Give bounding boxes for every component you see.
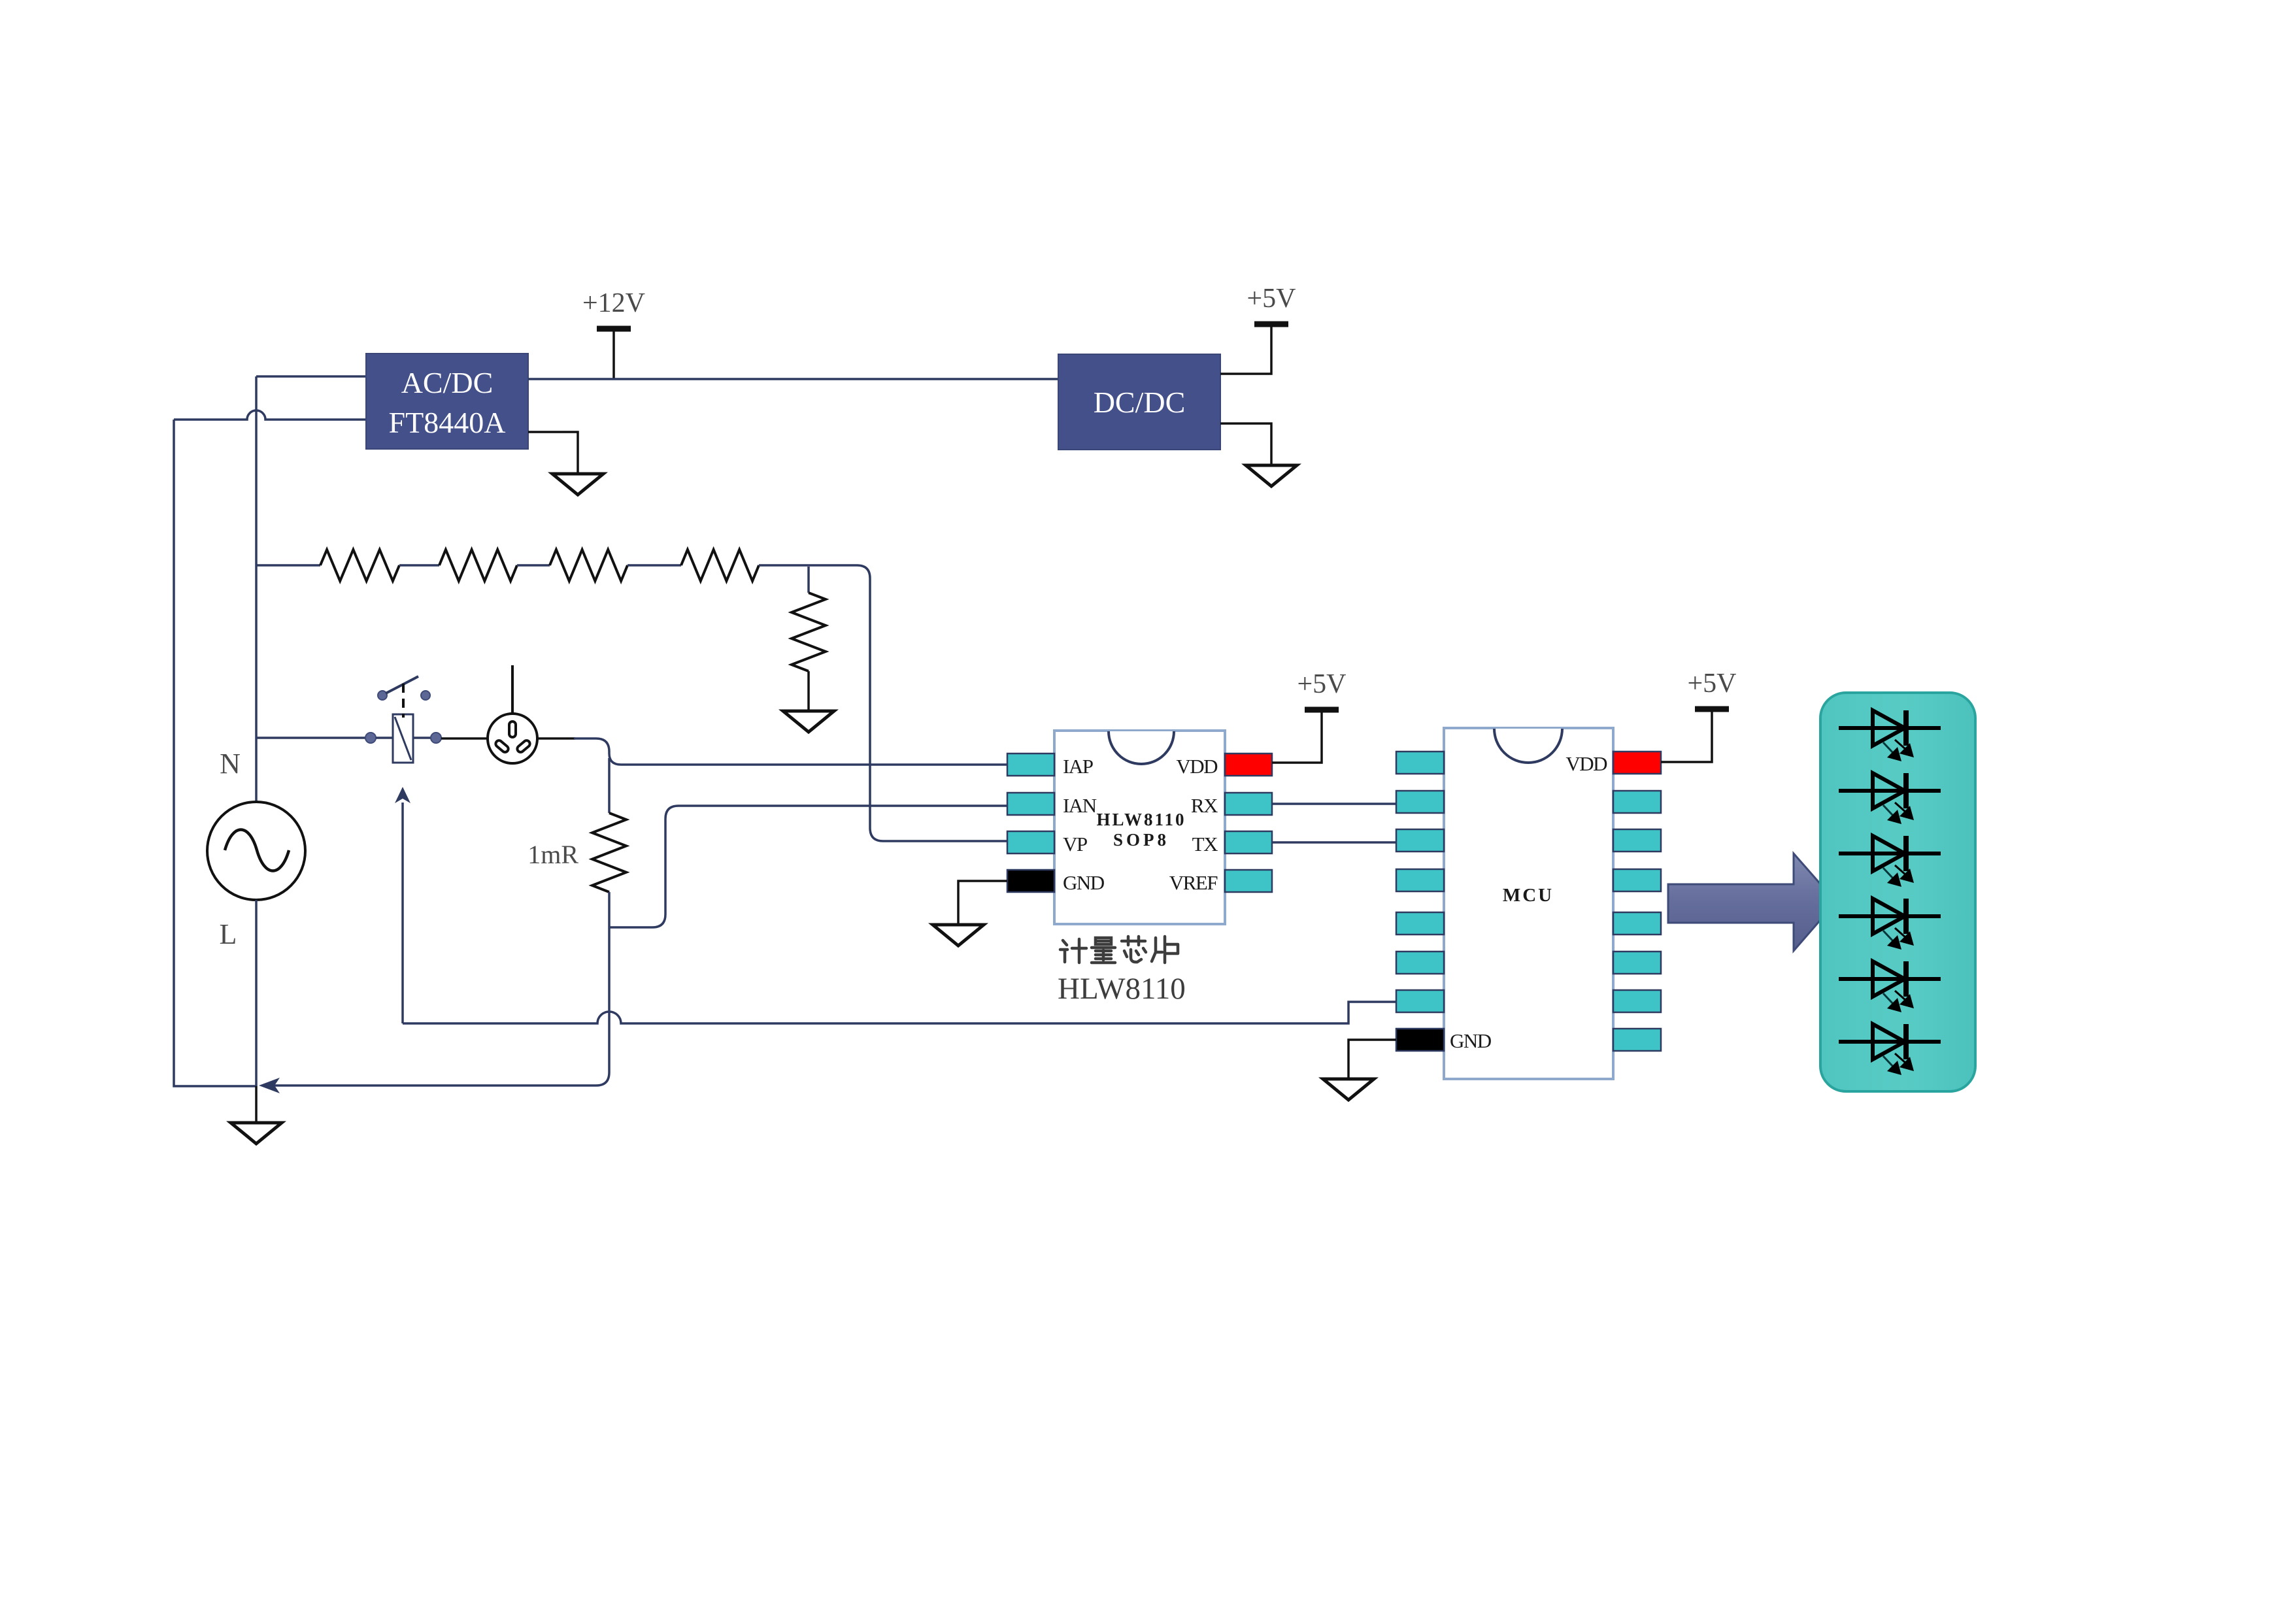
pin MCU left 6 [1396,952,1444,974]
wire TX to MCU [1272,841,1396,844]
svg-text:N: N [220,748,241,780]
wire below shunt to bottom return [275,892,609,1085]
arrowhead pointing at relay coil [395,787,410,803]
pin MCU right 3 [1613,829,1661,852]
wire MCU VDD to +5V [1661,712,1712,762]
wire 12V rail AC/DC output to DC/DC input [528,378,1058,380]
pin MCU right 1 [1613,752,1661,774]
wire divider tap down to shunt resistor [807,567,810,593]
LED D4 [1839,899,1941,950]
LED D5 [1839,961,1941,1012]
ground symbol at DC/DC [1246,465,1297,486]
svg-text:DC/DC: DC/DC [1094,386,1186,419]
arrowhead into source bottom node [259,1078,280,1093]
wire RX to MCU [1272,803,1396,805]
pin MCU left 4 [1396,869,1444,891]
pin IAP [1007,754,1054,776]
pin GND (HLW8110) [1007,870,1054,892]
pin MCU right 5 [1613,912,1661,935]
pin MCU right 4 [1613,869,1661,891]
svg-text:IAP: IAP [1063,755,1093,778]
MCU chip U2 [1444,728,1613,1079]
svg-text:FT8440A: FT8440A [389,406,506,439]
wire down to shunt resistor [608,758,611,813]
pin MCU left 8 [1396,1029,1444,1051]
wire MCU GND to ground [1348,1040,1396,1079]
svg-text:+5V: +5V [1687,669,1736,699]
dashed actuator link switch to coil [402,684,405,718]
wire relay right terminal to socket [441,737,488,740]
pin MCU right 6 [1613,952,1661,974]
svg-text:VDD: VDD [1565,752,1607,775]
ground symbol below divider [783,711,834,732]
svg-text:VREF: VREF [1169,871,1218,894]
wire relay control riser [401,803,404,1023]
HLW8110 metering chip U1 [1054,731,1225,924]
svg-text:GND: GND [1450,1029,1492,1052]
resistor divider R4 [681,550,759,581]
wire socket to IAP sense [537,737,575,740]
wire IAN branch from shunt bottom [609,806,1007,927]
wire L feeder vertical (x266) [174,420,256,1086]
resistor divider R3 [550,550,628,581]
wire return node to ground [255,1086,258,1123]
wire DC/DC ground stub [1220,423,1271,465]
svg-text:HLW8110: HLW8110 [1058,972,1186,1006]
svg-text:HLW8110: HLW8110 [1096,810,1186,829]
wire HLW VDD to +5V [1272,712,1322,763]
caption 计量芯片 (metering chip) drawn strokes [1060,936,1178,963]
svg-text:TX: TX [1192,833,1218,855]
LED indicator panel [1820,693,1975,1091]
svg-text:IAN: IAN [1063,794,1097,817]
svg-text:VDD: VDD [1176,755,1218,778]
wire N feeder to relay contact [256,737,367,739]
AC source symbol [207,802,305,900]
svg-text:L: L [220,918,237,950]
resistor divider lower leg R5 [792,593,826,671]
pin MCU left 2 [1396,791,1444,813]
ground symbol at source return [231,1123,282,1144]
pin MCU left 7 [1396,990,1444,1012]
wire N feeder to AC/DC top input [256,375,366,378]
svg-text:MCU: MCU [1503,885,1554,906]
ground symbol at MCU [1323,1079,1374,1100]
pin RX [1225,793,1272,815]
pin TX [1225,831,1272,853]
LED D1 [1839,710,1941,761]
svg-text:SOP8: SOP8 [1113,830,1169,850]
wire relay coil to right terminal [413,737,431,739]
wire relay left terminal to coil [376,737,393,739]
pin VP [1007,831,1054,853]
wire from N feeder to divider chain [256,564,320,567]
LED D6 [1839,1024,1941,1075]
svg-text:GND: GND [1063,871,1105,894]
resistor divider R2 [439,550,517,581]
resistor divider R1 [320,550,399,581]
DC/DC converter block [1058,354,1220,450]
wire L feeder to AC/DC bottom input with hop over N feeder [174,410,366,420]
power +12V supply bar [582,288,645,329]
pin MCU right 2 [1613,791,1661,813]
power +5V bar at HLW8110 [1297,669,1346,710]
wire AC/DC ground stub [528,432,578,474]
ground symbol at AC/DC [552,474,603,495]
LED D2 [1839,773,1941,824]
pin MCU right 8 [1613,1029,1661,1051]
pin VREF [1225,870,1272,892]
wire R5 to ground [807,671,810,711]
svg-text:VP: VP [1063,833,1087,855]
AC/DC converter FT8440A block [366,354,528,449]
wire N feeder vertical (x392) [255,376,258,802]
relay coil box K1 [393,714,413,763]
power socket symbol [488,665,537,763]
block arrow MCU to LED panel [1668,853,1836,951]
wire source bottom to return node [255,900,258,1086]
wire +12V tap down to 12V rail [612,331,615,379]
wire HLW GND to ground [958,881,1007,925]
node relay left terminal [365,733,376,743]
pin MCU right 7 [1613,990,1661,1012]
svg-text:1mR: 1mR [527,840,578,869]
svg-text:+5V: +5V [1247,284,1296,314]
ground symbol at HLW8110 [933,925,984,946]
wire relay control rail with hop over shunt wire [403,1002,1396,1023]
svg-text:AC/DC: AC/DC [401,366,494,399]
resistor shunt 1mR [592,813,626,892]
node relay right terminal [431,733,441,743]
pin MCU left 3 [1396,829,1444,852]
wire divider output to VP corner [759,565,1007,841]
wire DC/DC 5V output to +5V bar [1220,327,1271,374]
power +5V supply bar at DC/DC [1247,284,1296,324]
svg-text:RX: RX [1191,794,1218,817]
pin MCU left 1 [1396,752,1444,774]
switch contact symbol above relay [378,676,430,700]
svg-text:+12V: +12V [582,288,645,318]
pin VDD (HLW8110) [1225,754,1272,776]
svg-text:+5V: +5V [1297,669,1346,699]
pin MCU left 5 [1396,912,1444,935]
LED D3 [1839,836,1941,887]
power +5V bar at MCU [1687,669,1736,709]
pin IAN [1007,793,1054,815]
